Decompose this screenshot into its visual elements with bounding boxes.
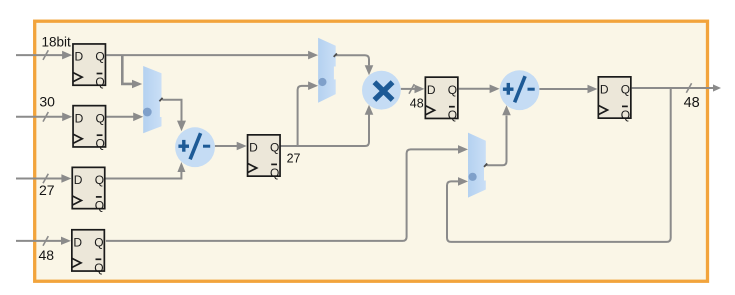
svg-text:30: 30 [39,94,55,110]
svg-text:48: 48 [39,247,55,263]
svg-text:18bit: 18bit [42,35,72,50]
svg-text:27: 27 [39,182,55,198]
svg-text:48: 48 [684,95,700,111]
svg-text:27: 27 [287,151,301,165]
svg-text:48: 48 [410,97,424,111]
